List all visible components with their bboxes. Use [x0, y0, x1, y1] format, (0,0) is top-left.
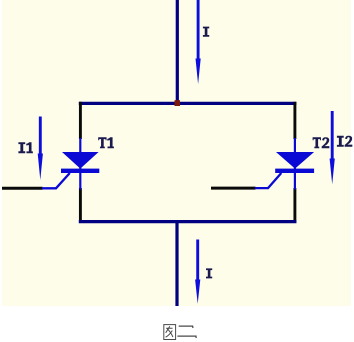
thyristor T2 [255, 138, 314, 190]
caption: figure title (drawn CJK strokes) [164, 325, 197, 340]
wire: top supply vertical [176, 0, 179, 103]
wire: top horizontal bus [79, 102, 297, 105]
wire: T2 gate terminal (black) [211, 187, 256, 190]
wire: left branch lower (black) [79, 188, 82, 223]
tu (box) [164, 325, 176, 340]
label I top [203, 27, 209, 37]
wire: T1 gate terminal (black) [2, 187, 43, 190]
label T2 [313, 137, 330, 148]
wire: bottom output vertical [175, 221, 178, 306]
label I1 [18, 142, 32, 153]
current arrow I2 [330, 111, 335, 184]
thyristor T1 [42, 138, 99, 190]
current arrow I1 [38, 117, 43, 181]
wire: left branch upper (black) [79, 102, 82, 139]
label I bottom [206, 268, 212, 278]
current arrow I top [196, 0, 201, 84]
wire: bottom horizontal bus [79, 220, 297, 223]
wire: right branch upper (black) [293, 102, 296, 139]
er (two bars) [177, 326, 196, 338]
wire: right branch lower (black) [293, 188, 296, 223]
label I2 [337, 136, 352, 147]
label T1 [98, 137, 114, 148]
current arrow I bottom [195, 240, 200, 304]
node: junction dot [175, 100, 181, 106]
